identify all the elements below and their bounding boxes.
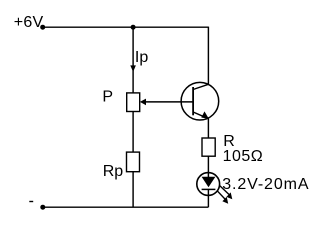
terminal dot minus <box>40 205 45 210</box>
wire Rp to bottom rail <box>132 172 134 208</box>
current arrow Ip <box>130 65 136 72</box>
wire top rail <box>43 26 209 28</box>
resistor R <box>202 138 215 156</box>
LED light arrow lower <box>217 191 228 204</box>
resistor Rp <box>127 152 140 172</box>
svg-text:Ip: Ip <box>135 49 148 66</box>
wire potentiometer to Rp <box>132 112 134 153</box>
potentiometer P body <box>127 93 140 112</box>
svg-text:P: P <box>102 88 113 105</box>
wire LED to bottom rail <box>207 189 209 207</box>
wire bottom rail <box>43 206 209 208</box>
svg-text:Rp: Rp <box>103 163 124 180</box>
LED D1 <box>197 173 220 196</box>
svg-text:+6V: +6V <box>14 14 44 31</box>
junction node Ip branch <box>131 25 136 30</box>
svg-text:3.2V-20mA: 3.2V-20mA <box>222 176 309 193</box>
transistor Q1 <box>181 82 219 120</box>
label minus terminal <box>29 201 33 202</box>
svg-text:105Ω: 105Ω <box>223 148 264 165</box>
LED light arrow upper <box>220 186 233 200</box>
wire collector <box>207 27 209 85</box>
wire wiper to transistor base <box>145 101 193 103</box>
wire resistor R to LED <box>207 156 209 177</box>
wire emitter to resistor R <box>207 118 209 138</box>
wire junction to potentiometer P <box>132 27 134 93</box>
terminal dot +6V <box>40 25 45 30</box>
potentiometer P wiper arrow <box>140 99 146 106</box>
